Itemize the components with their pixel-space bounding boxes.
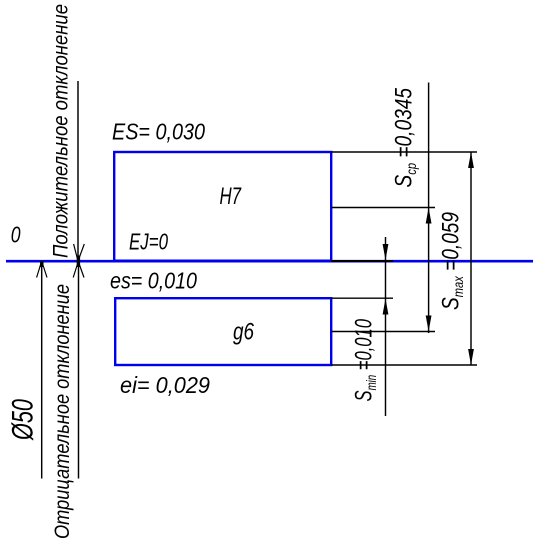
label H7	[220, 183, 243, 210]
svg-text:Ø50: Ø50	[7, 399, 40, 441]
svg-text:Отрицательное отклонение: Отрицательное отклонение	[50, 284, 74, 539]
arrow Smax down at g6 bottom	[468, 349, 474, 365]
svg-text:ES= 0,030: ES= 0,030	[112, 119, 205, 145]
extension line g6 bottom	[331, 364, 477, 366]
label Smin =0,010 (rotated)	[351, 319, 380, 402]
extension line zero (black over blue)	[331, 260, 393, 262]
label positive deviation (rotated)	[49, 4, 73, 258]
label ES= 0,030	[112, 119, 205, 145]
svg-text:H7: H7	[220, 183, 243, 210]
arrow negative deviation up at zero line	[73, 262, 84, 278]
svg-text:ei= 0,029: ei= 0,029	[120, 372, 210, 398]
arrow Scp up at H7 middle	[426, 208, 432, 224]
label Scp =0,0345 (rotated)	[391, 87, 420, 187]
extension line g6 middle	[331, 331, 435, 333]
label ei= 0,029	[120, 372, 210, 398]
label 0	[11, 222, 21, 248]
svg-text:g6: g6	[233, 319, 255, 346]
arrow Smin up at g6 top	[383, 299, 389, 315]
extension line H7 middle	[331, 207, 435, 209]
arrow Smin down at zero line	[383, 244, 389, 260]
svg-text:es= 0,010: es= 0,010	[110, 268, 197, 294]
dimension line Smax	[470, 152, 472, 365]
arrow Scp down at g6 middle	[426, 316, 432, 332]
label g6	[233, 319, 255, 346]
dimension line Smin	[385, 237, 387, 416]
leader line positive deviation	[77, 81, 79, 260]
H7 tolerance zone rectangle	[114, 152, 331, 261]
extension line g6 top	[331, 297, 393, 299]
g6 tolerance zone rectangle	[115, 298, 331, 365]
label EJ=0	[129, 229, 168, 255]
extension line H7 top	[331, 151, 477, 153]
label negative deviation (rotated)	[50, 284, 74, 539]
leader line diameter 50	[41, 261, 43, 479]
dimension line Scp	[428, 83, 430, 334]
zero line	[6, 260, 533, 263]
label diameter 50 (rotated)	[7, 399, 40, 441]
label Smax =0,059 (rotated)	[438, 212, 467, 310]
arrow positive deviation down at zero line	[74, 244, 85, 262]
svg-text:0: 0	[11, 222, 21, 248]
svg-text:Положительное отклонение: Положительное отклонение	[49, 4, 73, 258]
arrow Smax up at H7 top	[468, 152, 474, 168]
leader line negative deviation	[78, 262, 80, 479]
arrow diameter 50 up at zero line	[37, 261, 47, 278]
svg-text:EJ=0: EJ=0	[129, 229, 168, 255]
label es= 0,010	[110, 268, 197, 294]
